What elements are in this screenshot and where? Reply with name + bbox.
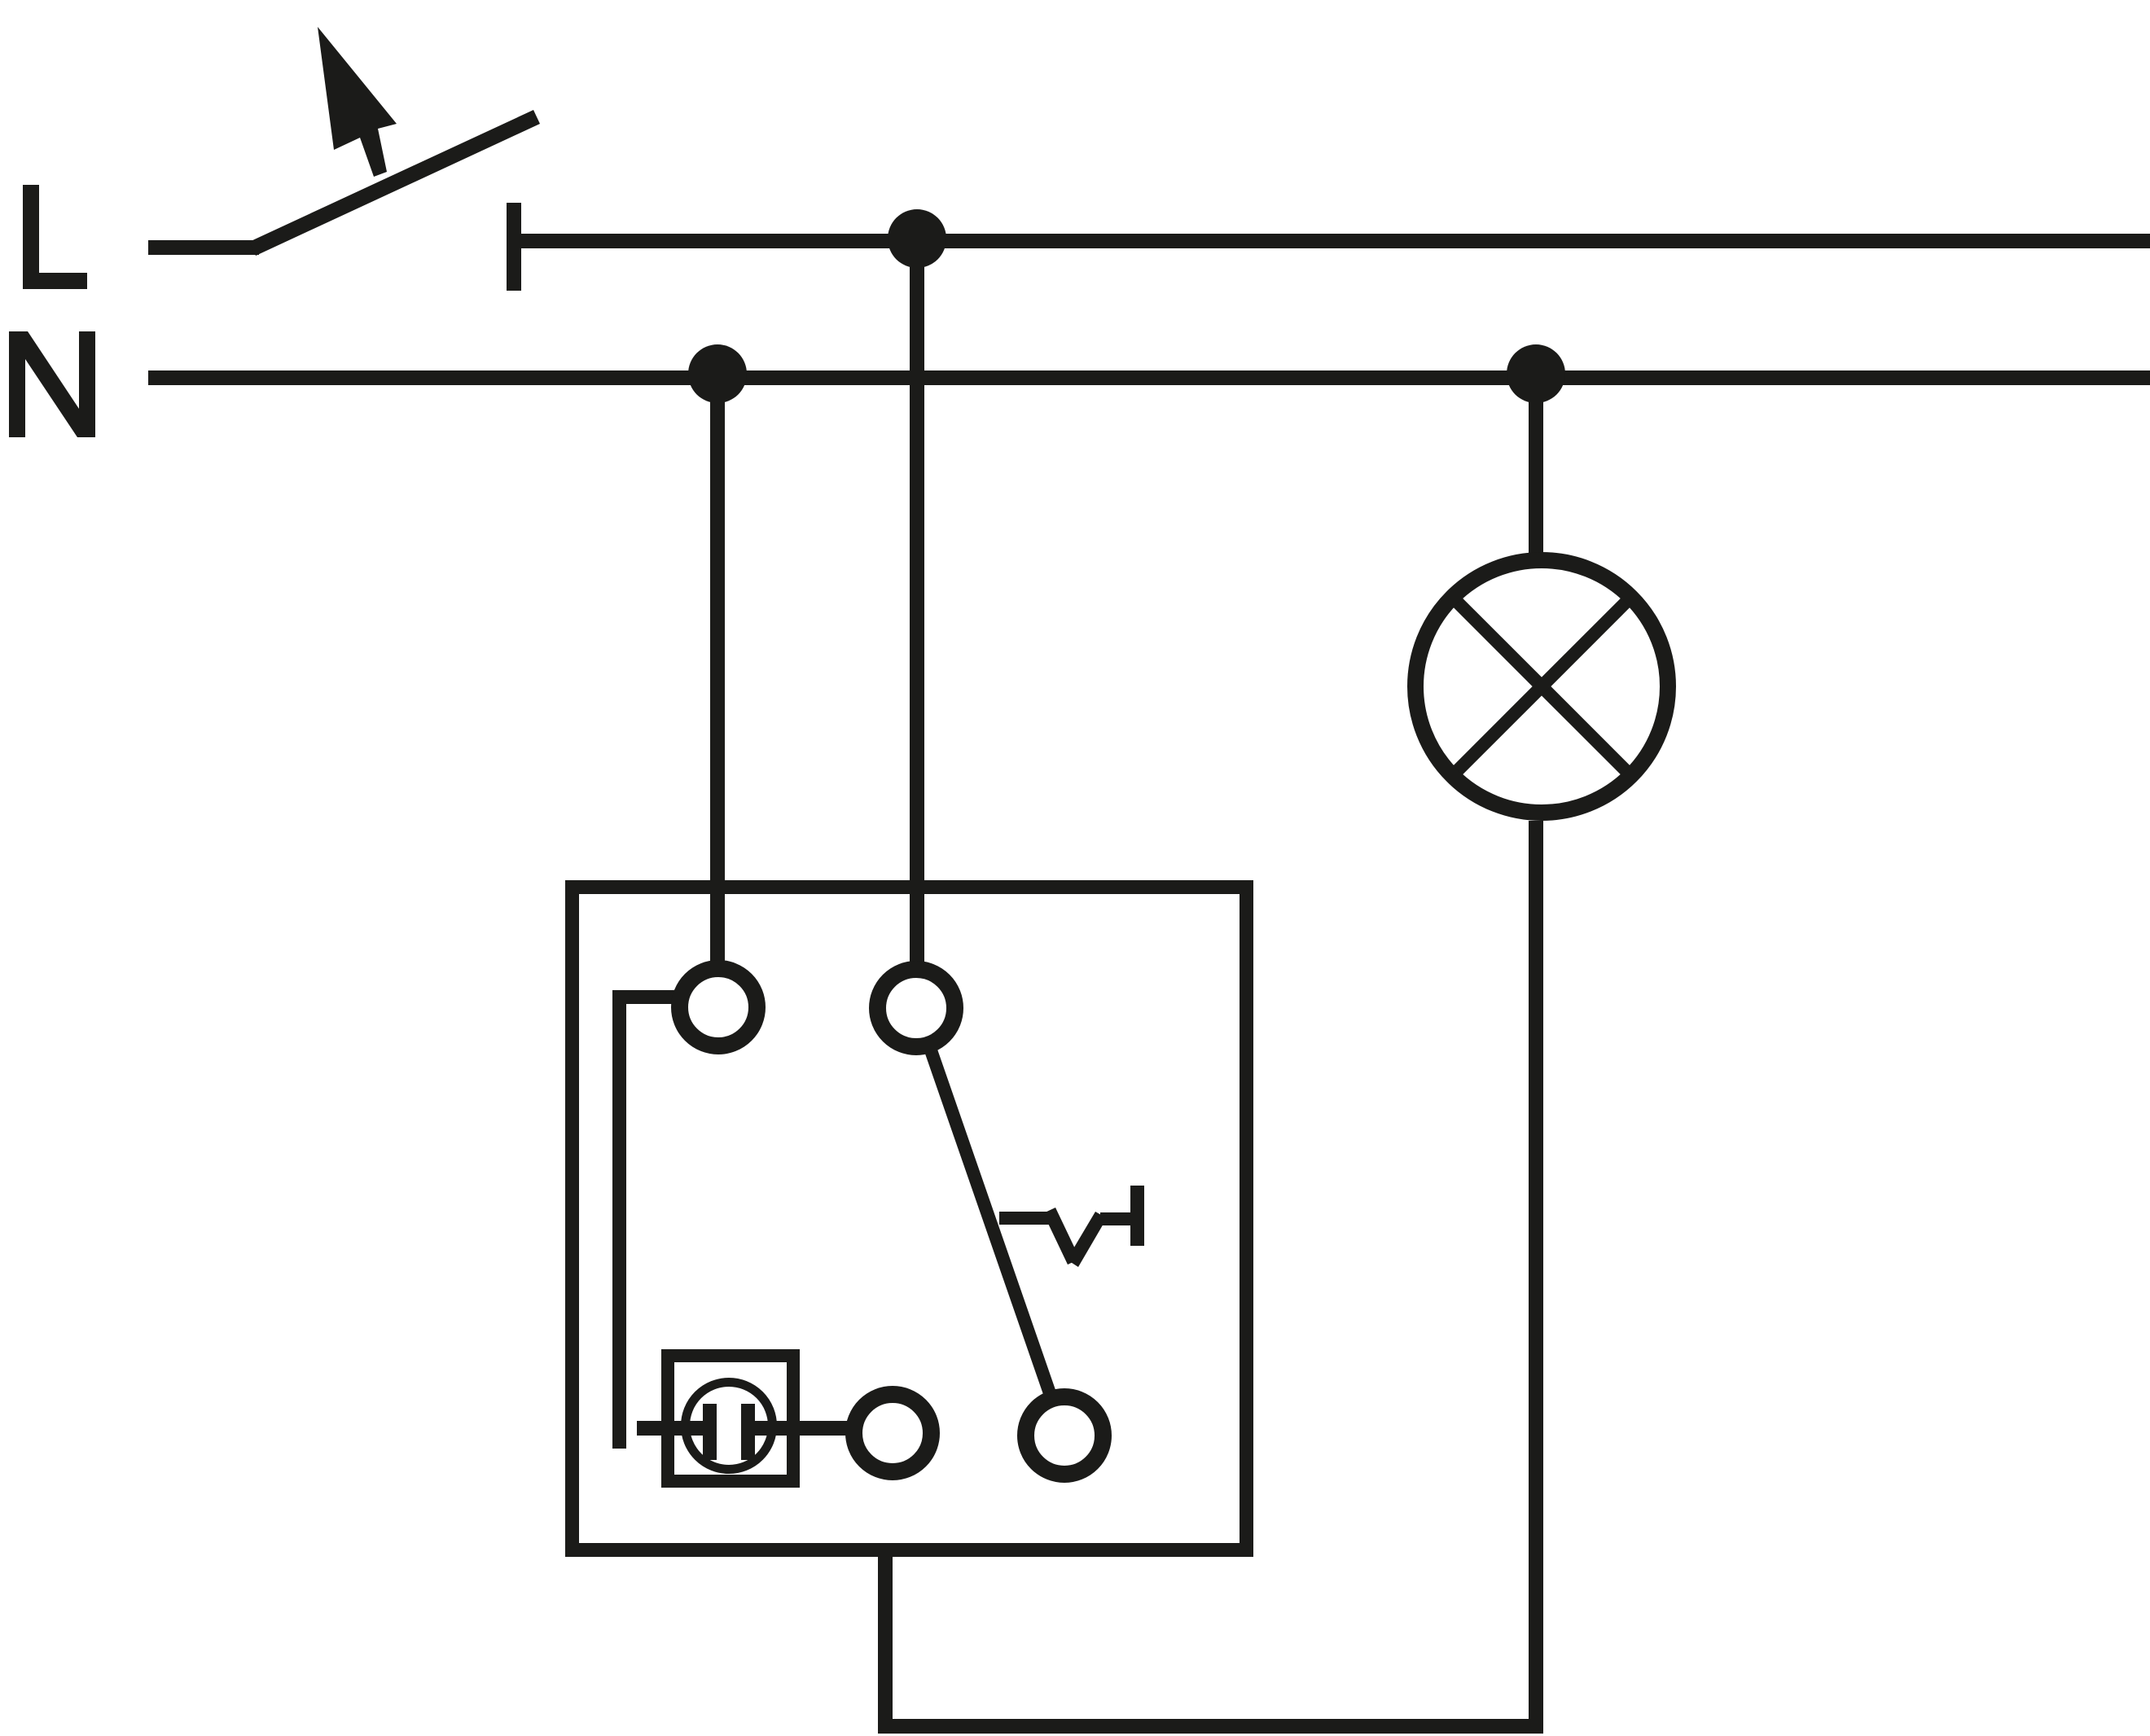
bottom horizontal wire run [878, 1719, 1543, 1734]
actuation arrow (manual operation) [318, 27, 397, 177]
wire from N junction down to insert box [710, 374, 725, 969]
internal switch blade (terminal 2 to terminal 4) [916, 1008, 1064, 1436]
glow lamp bulb circle [686, 1383, 773, 1470]
junction dot on L line [888, 209, 946, 268]
internal wire: stub to terminal 1 [612, 990, 676, 1004]
terminal 4 (bottom right) [1026, 1397, 1104, 1475]
glow lamp square frame [668, 1356, 793, 1481]
wire from insert box bottom down to bottom run [878, 1547, 893, 1734]
glow lamp left lead [637, 1421, 703, 1436]
wire from L junction down to insert box [910, 239, 924, 969]
net label L [23, 185, 87, 289]
net label N [9, 331, 95, 437]
switch S1 fixed contact bar [507, 203, 521, 291]
junction dot on N line (left) [688, 344, 747, 403]
lamp E1 (circle with cross) [1415, 560, 1668, 813]
N line (neutral conductor) [148, 370, 2150, 385]
terminal 1 (top left) [680, 969, 757, 1046]
glow lamp electrode right [741, 1404, 755, 1460]
switch S1 blade [249, 110, 540, 256]
terminal 2 (top middle) [878, 970, 955, 1047]
actuator link symbol [999, 1186, 1144, 1267]
wire from lamp E1 down to bottom run [1529, 821, 1543, 1734]
L line (live conductor) [521, 234, 2150, 248]
glow lamp right lead to terminal 3 [755, 1421, 847, 1436]
glow lamp electrode left [703, 1404, 717, 1460]
junction dot on N line (right, lamp feed) [1507, 344, 1565, 403]
wire from N junction down to lamp E1 [1529, 374, 1543, 560]
internal wire: left vertical run [612, 990, 626, 1449]
terminal 3 (bottom middle) [854, 1395, 932, 1472]
wire L stub to switch S1 [148, 240, 259, 255]
switch insert box outline [573, 888, 1247, 1550]
